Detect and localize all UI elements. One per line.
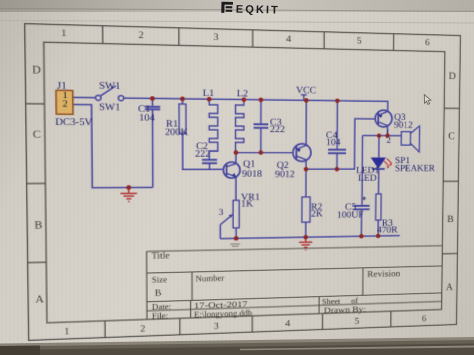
wire node Q2 to Q3 base <box>306 118 375 169</box>
power port VCC <box>301 95 307 101</box>
wire LED anode lead <box>378 136 380 158</box>
column divider ticks bottom band <box>105 311 391 337</box>
wire VR1 top lead from Q1 emitter <box>235 177 237 201</box>
capacitor C2 <box>202 160 217 163</box>
wire LED cathode to R3 <box>377 169 379 194</box>
wire R2 bottom lead <box>305 222 307 237</box>
row divider ticks left band <box>26 104 47 263</box>
ground symbol battery <box>120 187 137 201</box>
ground symbol rail <box>299 237 312 250</box>
wire ground rail <box>220 236 400 239</box>
wire VR1 wiper down <box>219 225 221 239</box>
EQKIT logo <box>221 1 296 19</box>
wire R1 top lead <box>181 99 183 104</box>
resistor R3 <box>376 194 382 220</box>
wire Q2 emitter to VCC <box>305 100 307 145</box>
potentiometer VR1 <box>220 200 239 228</box>
wire C1 bottom lead <box>151 110 153 187</box>
wire R3 bottom lead <box>377 220 379 236</box>
transistor Q1 <box>223 162 240 178</box>
switch SW1 <box>95 85 123 100</box>
wire VCC top rail <box>124 98 388 111</box>
wire C4 top lead <box>336 101 338 149</box>
wire C1 top lead <box>151 99 153 107</box>
inductor L2 <box>235 100 243 151</box>
title block frame <box>147 246 443 320</box>
label plus sign <box>362 196 366 200</box>
wire VR1 bottom lead <box>235 228 237 238</box>
junction dots <box>126 96 390 243</box>
wire C3 top lead <box>260 100 262 124</box>
resistor R2 <box>302 197 310 222</box>
wire L1 bottom to C2 <box>208 151 210 159</box>
capacitor C5 electrolytic <box>353 206 369 210</box>
wire C4 bottom lead <box>336 154 338 169</box>
wire node to C5 <box>361 136 364 206</box>
net tick mark <box>230 244 240 246</box>
capacitor C3 <box>254 124 269 128</box>
LED LED1 <box>371 157 393 168</box>
wire output node to speaker <box>363 135 402 137</box>
wire L2 bottom to node <box>234 151 236 153</box>
transistor Q3 <box>375 110 392 127</box>
wire Q1 collector to Q2 base <box>236 153 294 164</box>
wire J1 pin1 to SW1 <box>73 97 96 99</box>
wire C5 bottom lead <box>360 210 362 236</box>
transistor Q2 <box>293 144 311 162</box>
wire R1 bottom to Q1 base <box>183 134 224 170</box>
wire Q2 collector down <box>305 160 307 197</box>
speaker SP1 <box>401 126 419 152</box>
top band column numbers 1-6 <box>61 28 430 48</box>
inductor L1 <box>209 99 218 151</box>
resistor R1 <box>179 104 186 134</box>
connector J1 <box>56 90 73 114</box>
wire Q3 emitter down <box>386 126 388 136</box>
capacitor C4 <box>328 150 346 154</box>
capacitor C1 <box>145 107 160 110</box>
title block texts <box>152 246 401 320</box>
wire C2 bottom lead <box>208 163 210 169</box>
bottom band column numbers 1-6 <box>64 314 426 337</box>
sheet inner border <box>44 42 445 323</box>
right band row letters D C B A <box>446 71 456 293</box>
wire C3 bottom lead <box>260 128 262 152</box>
row divider ticks right band <box>442 108 459 254</box>
wire J1 pin2 battery minus run <box>73 105 153 188</box>
left band row letters D C B A <box>32 64 44 306</box>
column divider ticks top band <box>103 26 394 51</box>
